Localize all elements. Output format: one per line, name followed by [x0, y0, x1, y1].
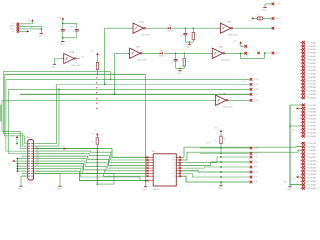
- svg-text:PIO2: PIO2: [255, 84, 259, 86]
- svg-text:PIO-A2/B3: PIO-A2/B3: [307, 83, 316, 86]
- svg-text:PIO-A8/B9: PIO-A8/B9: [307, 180, 316, 183]
- svg-text:PIO-A4/B1: PIO-A4/B1: [307, 55, 316, 58]
- svg-text:100n: 100n: [70, 26, 74, 28]
- svg-text:PIO-A2/B0: PIO-A2/B0: [307, 48, 316, 51]
- svg-text:12: 12: [94, 130, 96, 132]
- svg-text:1: 1: [210, 52, 211, 54]
- svg-text:1: 1: [127, 52, 128, 54]
- svg-text:GND: GND: [218, 188, 223, 190]
- svg-text:PIO-A2/B8: PIO-A2/B8: [307, 159, 316, 162]
- svg-text:PIO-A6/B9: PIO-A6/B9: [307, 173, 316, 176]
- svg-text:PIO-A5/B6: PIO-A5/B6: [307, 131, 316, 134]
- svg-text:T2OUT: T2OUT: [206, 143, 212, 145]
- svg-text:PIO-A6/B4: PIO-A6/B4: [307, 97, 316, 100]
- svg-text:PIO-A5/B1: PIO-A5/B1: [307, 59, 316, 62]
- svg-text:PIO-A7/B9: PIO-A7/B9: [307, 177, 316, 180]
- svg-text:IC3D: IC3D: [219, 47, 224, 49]
- svg-text:PIO-A2/B5: PIO-A2/B5: [307, 121, 316, 124]
- svg-text:DB6: DB6: [36, 162, 39, 164]
- svg-text:PIO-A6/B1: PIO-A6/B1: [307, 62, 316, 65]
- svg-text:DB0: DB0: [36, 147, 39, 149]
- svg-text:BAT43: BAT43: [168, 30, 173, 33]
- svg-text:1: 1: [61, 57, 62, 59]
- svg-text:DB7: DB7: [36, 165, 39, 167]
- svg-text:PIO6: PIO6: [277, 4, 281, 6]
- svg-text:DB5: DB5: [36, 160, 39, 162]
- svg-text:V+: V+: [154, 160, 156, 162]
- svg-text:2: 2: [76, 56, 77, 58]
- svg-text:PIO-A1/B2: PIO-A1/B2: [307, 79, 316, 82]
- svg-text:P1O: P1O: [255, 162, 259, 164]
- svg-text:D1: D1: [169, 25, 171, 27]
- svg-text:IC3E: IC3E: [70, 52, 75, 54]
- svg-text:F1: F1: [257, 15, 259, 17]
- svg-text:10k: 10k: [214, 141, 217, 143]
- svg-text:R2: R2: [186, 61, 188, 63]
- svg-text:PIO-A8/B4: PIO-A8/B4: [307, 107, 316, 110]
- svg-text:P3O: P3O: [255, 182, 259, 184]
- svg-text:IC3B: IC3B: [227, 22, 232, 24]
- svg-text:PIO-A3/B3: PIO-A3/B3: [307, 86, 316, 89]
- svg-text:PIO-A3/B5: PIO-A3/B5: [307, 125, 316, 128]
- svg-text:PIO-A0/B7: PIO-A0/B7: [307, 152, 316, 155]
- svg-text:PIO-A0/B10: PIO-A0/B10: [307, 187, 317, 190]
- svg-text:C2+: C2+: [154, 165, 157, 167]
- svg-text:GND: GND: [287, 189, 292, 191]
- svg-text:PIO-A4/B3: PIO-A4/B3: [307, 90, 316, 93]
- svg-text:C4: C4: [171, 62, 173, 64]
- svg-text:CTS: CTS: [81, 57, 84, 59]
- svg-text:PIO-A3/B0: PIO-A3/B0: [307, 52, 316, 55]
- svg-text:R1: R1: [195, 35, 197, 37]
- svg-text:R5: R5: [100, 141, 102, 143]
- svg-text:PIO-A1/B7: PIO-A1/B7: [307, 156, 316, 159]
- svg-text:DB4: DB4: [36, 157, 39, 159]
- svg-text:GND: GND: [57, 188, 62, 190]
- svg-text:1: 1: [218, 27, 219, 29]
- svg-text:1: 1: [213, 99, 214, 101]
- svg-text:2: 2: [228, 98, 229, 100]
- svg-text:74ACT04N: 74ACT04N: [140, 34, 150, 37]
- svg-text:GND: GND: [186, 47, 191, 49]
- svg-text:PIO-A3/B8: PIO-A3/B8: [307, 163, 316, 166]
- svg-text:PIO-A7/B4: PIO-A7/B4: [307, 104, 316, 107]
- svg-text:IC2: IC2: [152, 151, 155, 153]
- svg-text:PIO3: PIO3: [255, 89, 259, 91]
- svg-text:PIO-A6/B6: PIO-A6/B6: [307, 135, 316, 138]
- svg-text:PIO-A1/B5: PIO-A1/B5: [307, 118, 316, 121]
- svg-text:C1+: C1+: [154, 157, 157, 159]
- svg-text:PIO-A9/B2: PIO-A9/B2: [307, 72, 316, 75]
- svg-text:PIO-A0/B0: PIO-A0/B0: [307, 41, 316, 44]
- svg-text:74ACT04N: 74ACT04N: [228, 34, 238, 37]
- svg-text:PIO-A9/B9: PIO-A9/B9: [307, 184, 316, 187]
- svg-text:PIO4: PIO4: [255, 94, 259, 96]
- svg-text:1: 1: [131, 27, 132, 29]
- svg-text:DB2: DB2: [36, 152, 39, 154]
- svg-text:2: 2: [142, 51, 143, 53]
- svg-text:P2O: P2O: [255, 172, 259, 174]
- svg-text:PIO-A5/B3: PIO-A5/B3: [307, 93, 316, 96]
- svg-text:C1: C1: [58, 31, 60, 33]
- svg-text:PIO5: PIO5: [277, 53, 281, 55]
- svg-text:SV2: SV2: [27, 137, 31, 139]
- svg-text:PIO-A4/B6: PIO-A4/B6: [307, 128, 316, 131]
- svg-text:PIO-A7/B1: PIO-A7/B1: [307, 65, 316, 68]
- svg-text:PIO-A4/B8: PIO-A4/B8: [307, 166, 316, 169]
- svg-text:GND: GND: [60, 44, 65, 46]
- svg-text:C2: C2: [72, 31, 74, 33]
- svg-text:IC3A: IC3A: [139, 21, 144, 24]
- svg-text:FE14: FE14: [29, 182, 33, 184]
- svg-text:GND: GND: [18, 188, 23, 190]
- svg-text:2: 2: [145, 26, 146, 28]
- svg-text:GND: GND: [143, 189, 148, 191]
- svg-text:GND: GND: [51, 67, 56, 69]
- svg-text:PIO-A5/B8: PIO-A5/B8: [307, 170, 316, 173]
- svg-text:GND: GND: [177, 73, 182, 75]
- svg-text:DB1: DB1: [36, 150, 39, 152]
- svg-text:C3: C3: [180, 36, 182, 38]
- svg-text:PIO-A8/B2: PIO-A8/B2: [307, 69, 316, 72]
- svg-text:PIO8: PIO8: [277, 28, 281, 30]
- svg-text:GND: GND: [262, 10, 267, 12]
- svg-text:IC3C: IC3C: [136, 47, 141, 49]
- svg-text:PIO-A0/B2: PIO-A0/B2: [307, 76, 316, 79]
- svg-text:2: 2: [225, 51, 226, 53]
- svg-text:PIO0: PIO0: [255, 100, 259, 102]
- svg-text:D2: D2: [161, 50, 163, 52]
- svg-text:BAT43: BAT43: [159, 55, 164, 58]
- svg-text:JP1: JP1: [8, 164, 11, 166]
- svg-text:PIO-A8/B7: PIO-A8/B7: [307, 146, 316, 149]
- svg-text:4k7: 4k7: [91, 141, 94, 143]
- svg-text:DB3: DB3: [36, 155, 39, 157]
- svg-text:V+: V+: [245, 48, 247, 50]
- svg-text:74ACT04N: 74ACT04N: [71, 64, 81, 67]
- svg-text:R3: R3: [100, 64, 102, 66]
- svg-text:SCL: SCL: [255, 153, 259, 155]
- svg-text:74ACT04N: 74ACT04N: [223, 106, 233, 109]
- svg-text:GND: GND: [38, 36, 43, 38]
- svg-text:74ACT04N: 74ACT04N: [220, 59, 230, 62]
- svg-text:PIO-A1/B0: PIO-A1/B0: [307, 45, 316, 48]
- svg-text:74ACT04N: 74ACT04N: [137, 59, 147, 62]
- svg-text:PIO-A9/B4: PIO-A9/B4: [307, 111, 316, 114]
- svg-text:PIO1: PIO1: [255, 79, 259, 81]
- svg-text:PIO-A7/B6: PIO-A7/B6: [307, 142, 316, 145]
- svg-text:PIO7: PIO7: [277, 18, 281, 20]
- svg-text:PIO-A0/B5: PIO-A0/B5: [307, 114, 316, 117]
- svg-text:PIO-A9/B7: PIO-A9/B7: [307, 149, 316, 152]
- svg-text:2: 2: [233, 26, 234, 28]
- svg-text:MAX232: MAX232: [154, 188, 161, 191]
- svg-text:R4: R4: [223, 139, 225, 141]
